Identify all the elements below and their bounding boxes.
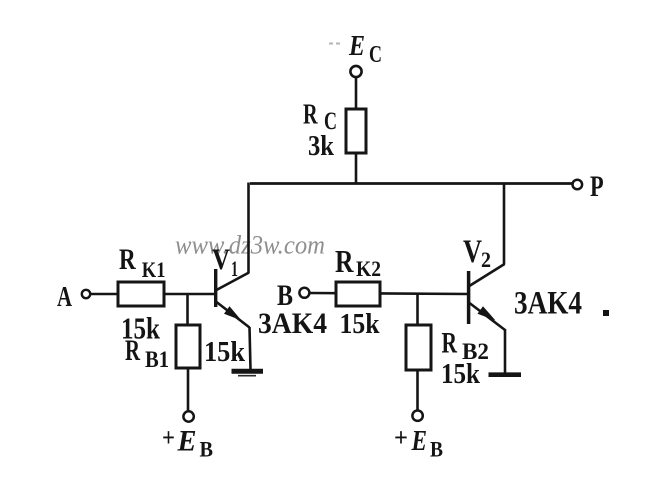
svg-text:B: B: [430, 437, 443, 462]
svg-text:P: P: [590, 170, 604, 203]
svg-text:E: E: [348, 30, 365, 62]
svg-text:C: C: [369, 42, 382, 68]
svg-text:K2: K2: [356, 256, 381, 281]
svg-text:15k: 15k: [340, 309, 380, 340]
svg-text:3AK4: 3AK4: [514, 286, 582, 322]
svg-text:2: 2: [481, 247, 491, 272]
svg-text:E: E: [177, 425, 197, 458]
svg-text:B1: B1: [145, 347, 169, 372]
svg-text:R: R: [442, 327, 458, 360]
svg-text:R: R: [119, 243, 136, 276]
svg-text:www.dz3w.com: www.dz3w.com: [175, 231, 325, 260]
svg-text:+: +: [162, 423, 175, 452]
svg-text:R: R: [335, 243, 354, 279]
svg-text:R: R: [125, 334, 140, 367]
svg-text:B: B: [200, 437, 214, 462]
svg-text:1: 1: [231, 256, 238, 281]
svg-text:3AK4: 3AK4: [258, 307, 327, 340]
svg-text:V: V: [463, 234, 482, 270]
svg-text:15k: 15k: [204, 336, 246, 368]
svg-text:E: E: [411, 426, 427, 457]
svg-text:V: V: [212, 243, 230, 276]
svg-text:15k: 15k: [441, 359, 480, 390]
svg-text:R: R: [303, 100, 318, 131]
svg-text:3k: 3k: [308, 131, 334, 162]
svg-text:K1: K1: [142, 257, 166, 282]
svg-text:+: +: [394, 423, 408, 452]
svg-text:A: A: [57, 281, 72, 313]
